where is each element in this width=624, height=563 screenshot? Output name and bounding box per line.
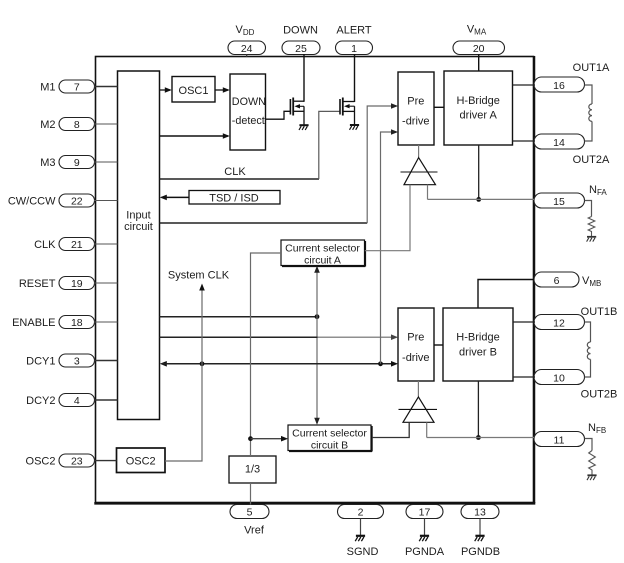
svg-text:System CLK: System CLK xyxy=(168,270,230,282)
wire DCY1 stub xyxy=(94,360,118,362)
svg-text:H-Bridge: H-Bridge xyxy=(456,95,499,107)
svg-text:DOWN: DOWN xyxy=(232,96,266,108)
svg-text:12: 12 xyxy=(553,318,565,330)
svg-text:OUT1A: OUT1A xyxy=(573,62,610,74)
wire input to DOWN-detect arrow xyxy=(160,133,230,139)
pin SGND (2) xyxy=(338,505,384,559)
svg-text:circuit A: circuit A xyxy=(304,255,341,267)
svg-text:VMA: VMA xyxy=(467,24,487,37)
svg-text:-drive: -drive xyxy=(402,352,430,364)
svg-text:14: 14 xyxy=(553,137,565,149)
pin PGNDB (13) xyxy=(461,505,500,559)
wire selector riser to Current selector A arrow xyxy=(314,266,320,317)
svg-text:CLK: CLK xyxy=(34,239,56,251)
wire H-Bridge A to OUT2A xyxy=(513,140,536,142)
motor coil load B between OUT1B and OUT2B xyxy=(585,322,591,377)
wire H-Bridge A to NFA rail xyxy=(478,145,480,199)
block OSC1 xyxy=(172,77,215,103)
wire comparator B minus leg to selector B xyxy=(372,422,409,437)
resistor RNFB sense xyxy=(585,439,596,475)
motor coil load A between OUT1A and OUT2A xyxy=(585,85,593,141)
wire NFB rail xyxy=(427,437,534,439)
svg-text:circuit B: circuit B xyxy=(311,440,348,452)
svg-text:ALERT: ALERT xyxy=(336,25,372,37)
svg-text:RESET: RESET xyxy=(19,278,56,290)
wire CLK riser to Q2 gate xyxy=(319,111,340,179)
ground NFA resistor xyxy=(587,237,597,242)
wire comparator B plus leg to NFB rail xyxy=(426,422,428,437)
svg-text:M2: M2 xyxy=(40,119,55,131)
wire 1/3 to Vref pin xyxy=(250,483,252,505)
block Pre-drive A xyxy=(398,72,434,145)
wire Vref riser xyxy=(251,253,282,456)
svg-text:-drive: -drive xyxy=(402,116,430,128)
svg-text:11: 11 xyxy=(554,435,565,447)
svg-text:5: 5 xyxy=(247,507,253,519)
svg-text:OUT2A: OUT2A xyxy=(573,154,610,166)
pin VDD (24) xyxy=(228,24,266,55)
block Pre-drive B xyxy=(398,308,434,381)
svg-text:2: 2 xyxy=(358,507,364,519)
transistor Q1 (DOWN output MOSFET) xyxy=(290,98,304,125)
pin OUT2A (14) xyxy=(534,134,610,166)
svg-text:8: 8 xyxy=(74,119,80,131)
svg-text:22: 22 xyxy=(71,196,83,208)
wire NFA rail xyxy=(428,198,535,200)
wire H-Bridge B to OUT2B xyxy=(513,376,535,378)
svg-text:1: 1 xyxy=(351,43,357,55)
svg-text:7: 7 xyxy=(74,82,80,94)
svg-text:VMB: VMB xyxy=(582,275,601,288)
svg-text:23: 23 xyxy=(71,456,83,468)
wire OSC2 stub xyxy=(94,460,117,462)
pin OSC2 (23) xyxy=(26,454,95,468)
svg-text:OUT1B: OUT1B xyxy=(581,306,618,318)
svg-text:circuit: circuit xyxy=(124,221,153,233)
svg-text:H-Bridge: H-Bridge xyxy=(456,332,499,344)
wire System CLK bus xyxy=(160,361,398,367)
wire CLK rail xyxy=(160,178,320,180)
svg-text:SGND: SGND xyxy=(347,546,379,558)
svg-text:OSC2: OSC2 xyxy=(26,456,56,468)
pin CLK (21) xyxy=(34,238,94,252)
svg-text:25: 25 xyxy=(295,43,307,55)
pin OUT1B (12) xyxy=(534,306,617,330)
svg-text:OUT2B: OUT2B xyxy=(581,389,618,401)
wire H-Bridge A to OUT1A xyxy=(513,84,536,86)
svg-text:6: 6 xyxy=(554,275,560,287)
wire VDD stub xyxy=(246,54,248,57)
svg-text:CLK: CLK xyxy=(224,166,246,178)
ground PGNDB xyxy=(475,519,485,542)
pin OUT2B (10) xyxy=(534,370,617,401)
svg-text:18: 18 xyxy=(71,317,83,329)
svg-text:OSC2: OSC2 xyxy=(126,456,156,468)
wire bus to pre-drive B upper arrow xyxy=(160,334,399,340)
pin ENABLE (18) xyxy=(12,316,94,330)
wire Vref branch to Current selector B arrow xyxy=(251,436,289,442)
block H-Bridge driver B xyxy=(443,308,513,381)
wire DOWN-detect to Q1 gate xyxy=(266,111,291,119)
svg-text:21: 21 xyxy=(71,239,83,251)
pin RESET (19) xyxy=(19,277,95,291)
svg-text:driver B: driver B xyxy=(459,347,497,359)
block: Input circuit xyxy=(118,71,160,420)
wire ENABLE bus to selector junction xyxy=(160,316,318,318)
ground SGND xyxy=(355,519,365,542)
wire comparator A minus leg to selector A xyxy=(365,185,410,251)
svg-text:10: 10 xyxy=(553,373,565,385)
node NFA junction xyxy=(476,197,481,202)
pin NFB (11) xyxy=(534,422,606,447)
svg-text:driver A: driver A xyxy=(460,110,498,122)
block Current selector circuit A xyxy=(281,240,365,267)
wire VMA pin to H-Bridge A xyxy=(478,54,480,71)
svg-text:Current selector: Current selector xyxy=(285,243,360,255)
svg-text:4: 4 xyxy=(74,395,80,407)
ground NFB resistor xyxy=(587,475,597,480)
block OSC2 xyxy=(117,448,166,473)
wire ENABLE stub xyxy=(94,321,118,323)
node NFB junction xyxy=(476,435,481,440)
svg-text:ENABLE: ENABLE xyxy=(12,317,55,329)
svg-text:24: 24 xyxy=(241,43,253,55)
wire DOWN pin to Q1 drain xyxy=(303,54,305,102)
node System CLK junction xyxy=(200,361,205,366)
svg-text:DCY1: DCY1 xyxy=(26,356,55,368)
svg-text:PGNDB: PGNDB xyxy=(461,546,500,558)
wire DCY2 stub xyxy=(94,399,118,401)
block DOWN-detect xyxy=(230,74,266,150)
ground Q2 source xyxy=(350,125,360,130)
svg-text:VDD: VDD xyxy=(236,24,255,37)
pin DOWN (25) xyxy=(282,25,320,56)
pin PGNDA (17) xyxy=(405,505,445,559)
wire input to OSC1 arrow xyxy=(160,87,172,93)
wire H-Bridge B to NFB rail xyxy=(477,381,479,438)
pin Vref (5) xyxy=(230,505,269,537)
wire pre-drive B to H-Bridge B xyxy=(434,344,443,346)
svg-text:OSC1: OSC1 xyxy=(179,85,209,97)
wire OSC1 to DOWN-detect arrow xyxy=(215,87,230,93)
svg-text:3: 3 xyxy=(74,356,80,368)
pin NFA (15) xyxy=(534,184,607,208)
svg-text:-detect: -detect xyxy=(232,115,265,127)
wire selector dropper to Current selector B arrow xyxy=(314,317,320,425)
svg-text:NFB: NFB xyxy=(588,422,606,435)
wire VMB pin to H-Bridge B xyxy=(478,280,534,309)
block Current selector circuit B xyxy=(288,425,372,452)
wire CW/CCW stub xyxy=(94,200,118,202)
resistor RNFA sense xyxy=(585,201,595,237)
svg-text:CW/CCW: CW/CCW xyxy=(8,196,56,208)
op-amp comparator B xyxy=(399,381,438,422)
pin OUT1A (16) xyxy=(534,62,610,92)
wire OSC2 output riser with up arrow xyxy=(165,284,205,462)
node pre-drive branch junction xyxy=(378,361,383,366)
pin VMB (6) xyxy=(534,272,601,288)
ground PGNDA xyxy=(419,519,429,542)
pin DCY1 (3) xyxy=(26,354,94,368)
pin VMA (20) xyxy=(453,24,505,56)
svg-text:DCY2: DCY2 xyxy=(26,395,55,407)
svg-text:TSD / ISD: TSD / ISD xyxy=(209,192,259,204)
pin ALERT (1) xyxy=(336,25,373,56)
wire M2 stub xyxy=(94,123,118,125)
pin CW/CCW (22) xyxy=(8,194,95,208)
block H-Bridge driver A xyxy=(444,71,513,145)
block 1/3 divider xyxy=(229,456,276,483)
wire RESET stub xyxy=(94,282,118,284)
svg-text:9: 9 xyxy=(74,157,80,169)
svg-text:Input: Input xyxy=(126,210,150,222)
wire comparator A plus leg to NFA rail xyxy=(427,185,429,200)
pin M2 (8) xyxy=(40,118,94,132)
svg-text:1/3: 1/3 xyxy=(245,464,260,476)
wire CLK stub xyxy=(94,243,118,245)
wire input rail to pre-drive A upper xyxy=(160,103,399,223)
svg-text:20: 20 xyxy=(473,43,485,55)
pin M1 (7) xyxy=(40,80,94,94)
svg-text:13: 13 xyxy=(474,507,486,519)
svg-text:Pre: Pre xyxy=(407,96,424,108)
svg-text:M1: M1 xyxy=(40,82,55,94)
svg-text:Vref: Vref xyxy=(244,525,265,537)
op-amp comparator A xyxy=(401,145,438,185)
wire branch riser to pre-drive A lower arrow xyxy=(381,129,399,364)
svg-text:PGNDA: PGNDA xyxy=(405,546,445,558)
wire M1 stub xyxy=(94,86,118,88)
svg-text:19: 19 xyxy=(71,278,83,290)
pin DCY2 (4) xyxy=(26,394,94,408)
chip boundary xyxy=(94,56,535,503)
svg-text:M3: M3 xyxy=(40,157,55,169)
node Vref branch junction xyxy=(248,436,253,441)
svg-text:NFA: NFA xyxy=(589,184,607,197)
svg-text:17: 17 xyxy=(419,507,431,519)
pin M3 (9) xyxy=(40,156,94,170)
wire M3 stub xyxy=(94,161,118,163)
wire H-Bridge B to OUT1B xyxy=(513,321,535,323)
svg-text:15: 15 xyxy=(553,196,565,208)
node selector junction xyxy=(315,314,320,319)
block TSD/ISD xyxy=(189,191,280,205)
svg-text:16: 16 xyxy=(553,80,565,92)
ground Q1 source xyxy=(299,125,309,130)
wire TSD/ISD to input arrow xyxy=(160,195,189,201)
wire ALERT pin to Q2 drain xyxy=(354,54,356,102)
transistor Q2 (ALERT output MOSFET) xyxy=(340,98,355,125)
svg-text:DOWN: DOWN xyxy=(283,25,318,37)
wire pre-drive A to H-Bridge A xyxy=(434,106,444,108)
svg-text:Current selector: Current selector xyxy=(292,428,367,440)
svg-text:Pre: Pre xyxy=(407,332,424,344)
